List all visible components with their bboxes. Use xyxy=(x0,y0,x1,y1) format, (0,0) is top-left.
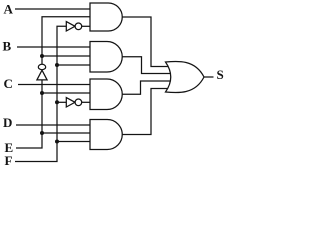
OR gate U5 xyxy=(166,61,205,92)
wire U2 output to OR input2 xyxy=(122,57,172,74)
inverter N3 bubble xyxy=(75,99,82,106)
inverter N1 bubble xyxy=(75,23,82,30)
svg-text:B: B xyxy=(3,39,12,54)
wire node X2 tap to U2 input3 xyxy=(57,64,91,66)
AND gate U1 xyxy=(90,3,122,31)
wire inverter N3 output to U3 input3 xyxy=(82,101,91,103)
wire E rail lower segment xyxy=(16,80,42,148)
AND gate U3 xyxy=(90,79,122,110)
wire node X1 tap to U2 input2 xyxy=(42,55,91,57)
node junction dot X2-U4 xyxy=(55,140,59,144)
svg-text:C: C xyxy=(4,76,13,91)
AND gate U2 xyxy=(90,42,122,73)
svg-text:D: D xyxy=(3,115,12,130)
svg-text:S: S xyxy=(217,67,224,82)
inverter N1 triangle xyxy=(66,22,75,31)
node junction dot X1-U3 xyxy=(40,91,44,95)
wire U3 output to OR input3 xyxy=(122,81,172,94)
wire C to U3 xyxy=(18,84,91,86)
wire U5 output to S xyxy=(204,76,214,78)
wire node X1 tap to U3 input2 xyxy=(42,92,91,94)
AND gate U4 xyxy=(90,120,122,150)
node junction dot X2-N3 xyxy=(55,100,59,104)
node junction dot X1-U4 xyxy=(40,131,44,135)
inverter N2 bubble xyxy=(38,64,45,69)
node junction dot X1-U2 xyxy=(40,54,44,58)
inverter N2 vertical triangle xyxy=(37,70,47,80)
wire inverter N1 output to U1 input3 xyxy=(82,25,91,27)
wire node X2 tap to U4 input3 xyxy=(57,141,91,143)
wire F rail to inverter N1 xyxy=(15,26,66,161)
wire B to U2 xyxy=(17,46,91,48)
svg-text:F: F xyxy=(5,153,13,168)
wire D to U4 xyxy=(16,124,91,126)
node junction dot X2-U2 xyxy=(55,63,59,67)
svg-text:A: A xyxy=(4,2,14,17)
wire U1 output to OR input1 xyxy=(122,17,172,67)
wire A to U1 xyxy=(15,8,91,10)
inverter N3 triangle xyxy=(66,98,75,107)
wire U4 output to OR input4 xyxy=(122,89,172,135)
wire node X1 tap to U4 input2 xyxy=(42,132,91,134)
wire NOT-E rail upper segment to U1 xyxy=(42,17,91,65)
wire node X2 tap to inverter N3 xyxy=(57,101,66,103)
